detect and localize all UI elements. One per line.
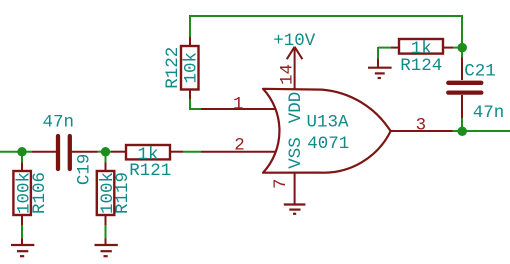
- svg-text:47n: 47n: [473, 103, 505, 123]
- svg-text:U13A: U13A: [306, 113, 349, 133]
- svg-text:14: 14: [278, 64, 298, 85]
- svg-text:R119: R119: [113, 172, 133, 214]
- svg-text:7: 7: [271, 178, 291, 189]
- svg-text:+10V: +10V: [273, 31, 316, 51]
- svg-text:R124: R124: [400, 56, 442, 76]
- svg-text:R106: R106: [30, 172, 50, 214]
- svg-text:1k: 1k: [137, 145, 158, 165]
- svg-text:R122: R122: [163, 47, 183, 89]
- svg-text:2: 2: [234, 136, 245, 156]
- svg-text:VSS: VSS: [286, 137, 306, 169]
- svg-text:3: 3: [416, 115, 427, 135]
- svg-text:1k: 1k: [411, 39, 432, 59]
- svg-text:10k: 10k: [182, 52, 202, 84]
- svg-text:VDD: VDD: [286, 92, 306, 124]
- svg-text:C19: C19: [75, 154, 95, 186]
- svg-text:4071: 4071: [307, 134, 349, 154]
- svg-text:C21: C21: [464, 61, 496, 81]
- svg-text:1: 1: [233, 94, 244, 114]
- svg-text:47n: 47n: [42, 113, 74, 133]
